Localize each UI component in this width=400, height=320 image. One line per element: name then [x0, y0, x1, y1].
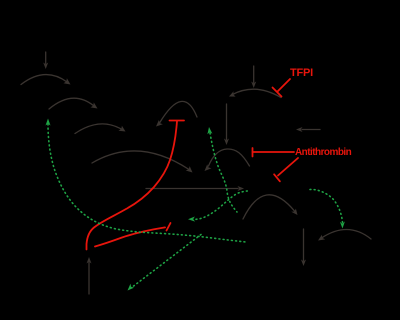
arrow Xa-Va to prothrombin arc — [146, 188, 238, 190]
arc IX to IXa — [75, 124, 122, 134]
green feedback thrombin to V — [196, 191, 250, 220]
red APC to Va inhibition curve — [95, 227, 165, 246]
red antithrombin to Xa T-bar — [253, 151, 295, 153]
arrow protein C up to APC — [88, 263, 90, 295]
arrow trauma to VII — [253, 66, 255, 83]
red APC to VIIIa inhibition curve — [170, 120, 185, 122]
red TFPI inhibition line — [87, 79, 299, 250]
arc XIII to XIIIa (leftward) — [322, 229, 372, 239]
green feedback thrombin to XIII — [310, 189, 343, 223]
arrow damaged-surface to XII — [45, 52, 47, 64]
arc TF-VIIa crossover to IX (leftward) — [160, 101, 198, 123]
green feedback thrombin to XI — [48, 124, 246, 242]
arc XII to XIIa — [21, 75, 67, 85]
arc X to Xa (extrinsic, leftward) — [209, 149, 250, 166]
label TFPI — [290, 67, 313, 79]
label Antithrombin — [295, 147, 351, 158]
arc VII to VIIa (leftward) — [233, 89, 282, 97]
arrow thrombin to fibrinogen — [303, 229, 305, 261]
arc prothrombin II to thrombin IIa — [243, 195, 295, 219]
arrow X from right (extrinsic) — [302, 129, 320, 131]
arc XI to XIa — [49, 98, 94, 109]
green feedback thrombin to protein C — [131, 235, 201, 289]
arrow TF-VIIa down to extrinsic tenase arc — [226, 104, 228, 140]
red antithrombin diagonal T-bar — [278, 158, 298, 176]
green feedback thrombin to VIII — [210, 133, 237, 212]
arc X to Xa — [92, 151, 189, 170]
